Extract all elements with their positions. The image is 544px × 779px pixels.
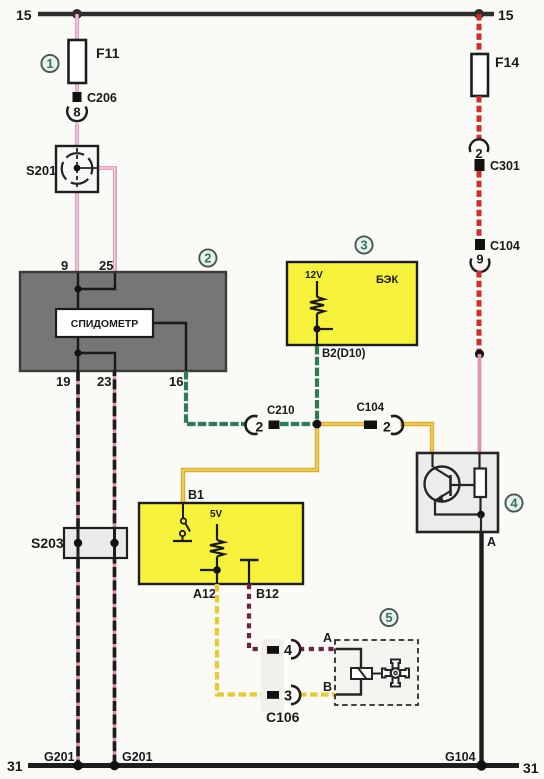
svg-text:19: 19 (56, 374, 70, 389)
svg-text:4: 4 (284, 643, 292, 659)
svg-text:2: 2 (256, 419, 264, 435)
wire: black/pink stripe, pin 23 to G201 (113, 371, 117, 765)
wire: internal BEK resistor to pin B2 (316, 314, 318, 347)
svg-text:3: 3 (284, 689, 292, 705)
transistor Q (in box 4) (425, 453, 482, 515)
wire: internal, inner box to pin 16 (153, 323, 186, 371)
callout circle 2 (199, 249, 216, 266)
svg-text:B: B (323, 680, 332, 694)
connector C104 (right) (475, 239, 520, 253)
svg-text:G104: G104 (445, 750, 476, 764)
node: junction on bus 15 right (F14 feed) (474, 9, 484, 19)
speed signal switch S201 (26, 146, 98, 192)
svg-text:2: 2 (383, 419, 391, 435)
node: junction on bus 15 left (F11 feed) (72, 9, 82, 19)
node: junction in box 4 (477, 511, 485, 519)
sensor element contact (in yellow box) (240, 560, 259, 584)
wire: internal coil to rotor (372, 673, 382, 675)
wire: yellow, junction right to transistor box 4 (317, 422, 364, 426)
connector C106 housing shade (261, 639, 284, 712)
wire: internal box4 junction to pin A (480, 515, 482, 533)
svg-text:A: A (487, 535, 496, 549)
connector pin 2 arc (C301) (470, 139, 488, 161)
wire: maroon/white stripe, B12 to C106 pin 4 (249, 584, 267, 649)
wire: internal stub at junction (200, 569, 217, 571)
svg-text:1: 1 (46, 56, 53, 71)
callout circle 5 (380, 609, 397, 626)
ECM block BEK (287, 262, 417, 345)
wire: red/white stripe, C104 to junction (477, 271, 482, 354)
fuse F11 (69, 40, 120, 83)
svg-text:9: 9 (61, 258, 68, 273)
wire: pink highlight centers (77, 15, 480, 452)
wire: maroon/white stripe, C106 pin 4 to sensor A (299, 647, 336, 651)
svg-text:S201: S201 (26, 163, 56, 178)
wire: red/white stripe, F14 to C301 (477, 96, 482, 140)
node: junction red/pink (475, 349, 484, 358)
svg-text:B12: B12 (256, 587, 279, 601)
wire: pink, S201 to speedometer pin 9 (75, 192, 79, 273)
ground G201 (right) (110, 750, 153, 770)
sensor coil element (351, 668, 372, 679)
wire: internal, inner box down to pin 19 (77, 337, 79, 371)
wire: internal, pin25 over to node (78, 273, 115, 289)
bus 15 (top) (38, 12, 494, 17)
speed sensor supply box (yellow, block with 5V) (139, 503, 303, 584)
svg-text:5V: 5V (210, 509, 223, 520)
wire: internal, pin9 down to node (77, 273, 79, 309)
svg-text:15: 15 (498, 7, 514, 23)
node: internal junction top (74, 285, 81, 292)
svg-text:2: 2 (204, 251, 211, 266)
svg-text:F14: F14 (495, 54, 519, 70)
splice S203 (31, 528, 127, 558)
wire: yellow, junction down-left to B1 (183, 424, 317, 504)
wire: red/white stripe, bus15 to F14 (477, 14, 482, 55)
svg-text:G201: G201 (44, 750, 75, 764)
wire: red/white stripe, C301 to C104 (477, 171, 482, 239)
resistor in BEK (310, 297, 324, 314)
svg-text:A: A (323, 631, 332, 645)
fuse F14 (472, 54, 520, 96)
resistor (5V pull-up in yellow box) (210, 524, 224, 584)
svg-text:2: 2 (475, 146, 482, 161)
callout circle 3 (355, 236, 372, 253)
node: BEK internal junction (313, 325, 320, 332)
connector C210 (pin 2) (246, 405, 295, 435)
node: junction in yellow box (213, 566, 221, 574)
svg-text:15: 15 (16, 7, 32, 23)
wire: pink, bus15 to F11 (75, 14, 79, 41)
wire: green/white stripe, pin16 down and right to junction (186, 371, 317, 424)
wire: internal sensor A lead (336, 649, 361, 668)
svg-text:C210: C210 (267, 405, 295, 417)
wire: internal sensor B lead (336, 679, 361, 695)
svg-text:C301: C301 (490, 159, 520, 173)
ground G201 (left) (44, 750, 83, 770)
connector C106 pin 4 (267, 640, 300, 659)
switch contact (in yellow box) (173, 504, 192, 541)
svg-text:5: 5 (385, 610, 392, 625)
connector pin 9 arc (C104) (471, 252, 490, 272)
wire: black/pink stripe, pin 19 to G201 (76, 371, 80, 765)
node: junction green/yellow (313, 420, 322, 429)
svg-text:G201: G201 (122, 750, 153, 764)
ground G104 (445, 750, 487, 771)
wire: pink, F11 to C206 (75, 82, 79, 93)
wire: yellow highlight centers (183, 424, 432, 503)
svg-text:31: 31 (7, 758, 23, 774)
wire: black, pin A to G104 (479, 532, 483, 765)
svg-text:F11: F11 (96, 45, 120, 61)
rotor cross symbol (382, 660, 409, 687)
vehicle speed sensor box 5 (dashed) (335, 640, 418, 705)
connector C301 (475, 159, 520, 173)
svg-text:8: 8 (73, 105, 80, 120)
svg-text:B2(D10): B2(D10) (322, 348, 366, 360)
svg-text:S203: S203 (31, 535, 64, 551)
speedometer inner box (56, 309, 153, 337)
svg-text:3: 3 (360, 238, 367, 253)
svg-text:23: 23 (97, 374, 111, 389)
wire: pink, C206 to S201 (75, 124, 79, 147)
wire: yellow/white stripe, C106 pin 3 to sensor B (299, 692, 336, 696)
svg-text:9: 9 (476, 252, 483, 267)
resistor in box 4 (475, 454, 487, 515)
svg-text:16: 16 (169, 374, 183, 389)
svg-text:C106: C106 (266, 709, 300, 725)
svg-text:B1: B1 (188, 488, 204, 502)
callout circle 4 (505, 494, 522, 511)
svg-text:СПИДОМЕТР: СПИДОМЕТР (71, 318, 139, 330)
svg-text:C104: C104 (357, 402, 385, 414)
wire: pink, junction down to box 4 (478, 354, 482, 454)
svg-text:25: 25 (99, 258, 113, 273)
wire: green/white stripe, B2 to junction (315, 346, 319, 424)
connector C206 (73, 91, 117, 105)
connector pin 8 arc (C206) (67, 105, 87, 122)
connector C106 pin 3 (267, 686, 300, 705)
instrument cluster block (speedometer) (20, 272, 226, 371)
bus 31 (bottom) (28, 763, 519, 768)
vehicle speed sensor buffer box 4 (417, 453, 498, 532)
node: internal junction bottom (74, 349, 81, 356)
wire: internal BEK junction stub (317, 328, 333, 330)
svg-text:12V: 12V (305, 270, 323, 281)
callout circle 1 (41, 55, 58, 72)
wire: internal, node to pin 23 (78, 353, 115, 371)
svg-text:4: 4 (510, 496, 518, 511)
svg-text:C104: C104 (490, 239, 520, 253)
svg-text:31: 31 (523, 760, 539, 776)
wire: yellow/white stripe, A12 to C106 pin 3 (217, 584, 267, 695)
svg-text:A12: A12 (193, 587, 216, 601)
svg-text:C206: C206 (87, 91, 117, 105)
wire: internal BEK 12V lead (316, 281, 318, 297)
wire: pink, S201 right branch to speedometer pin 25 (96, 168, 115, 273)
svg-text:БЭК: БЭК (376, 274, 398, 286)
connector C104 (pin 2, on yellow run) (357, 402, 403, 435)
